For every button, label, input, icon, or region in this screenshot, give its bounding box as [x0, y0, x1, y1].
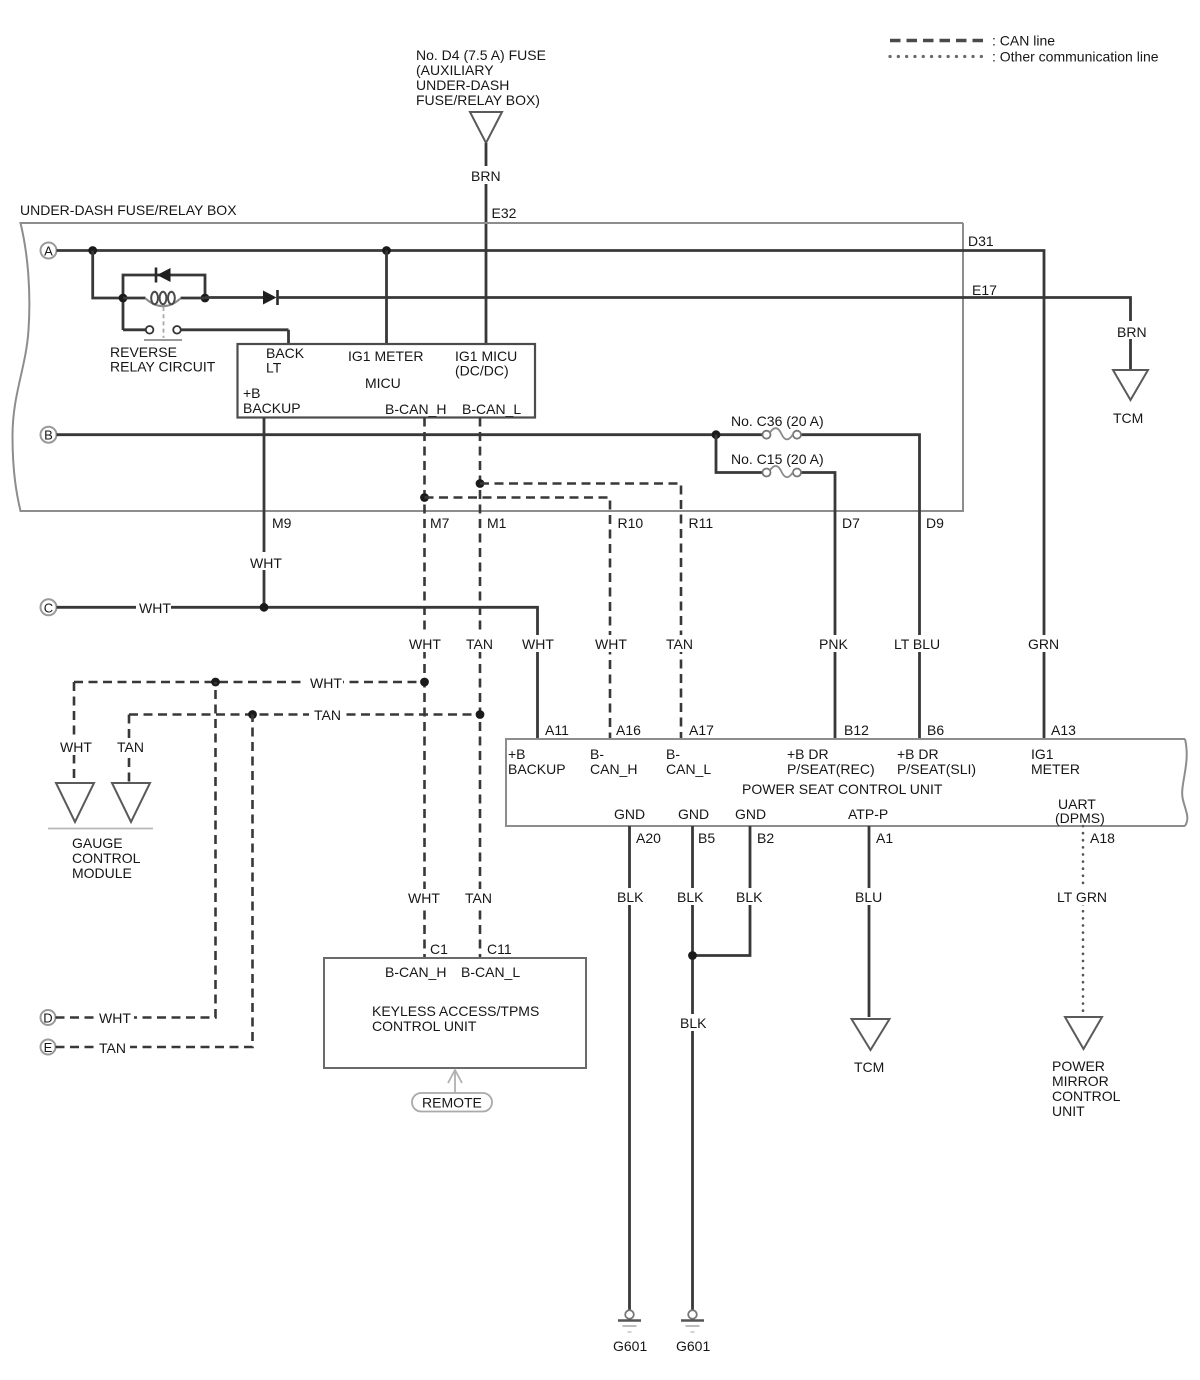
legend CAN line sample	[890, 33, 1055, 49]
node A	[41, 243, 57, 259]
label POWER MIRROR CONTROL UNIT	[1052, 1058, 1121, 1119]
svg-text:TAN: TAN	[466, 636, 493, 652]
other-comm dotted wire A18 LT GRN	[1054, 826, 1108, 1015]
junction WHT dashed at D riser	[211, 678, 220, 687]
svg-text:CAN_H: CAN_H	[590, 761, 637, 777]
svg-text:BLK: BLK	[677, 889, 704, 905]
MICU labels	[243, 345, 521, 417]
junction TAN dashed at E riser	[248, 710, 257, 719]
svg-text:MIRROR: MIRROR	[1052, 1073, 1109, 1089]
gauge module baseline	[48, 828, 153, 830]
svg-text:B12: B12	[844, 722, 869, 738]
wire E17 main horizontal to TCM	[205, 298, 1149, 371]
svg-text:UNIT: UNIT	[1052, 1103, 1085, 1119]
svg-text:+B DR: +B DR	[787, 746, 829, 762]
svg-text:C11: C11	[487, 941, 512, 957]
svg-text:BLK: BLK	[736, 889, 763, 905]
svg-text:WHT: WHT	[99, 1010, 131, 1026]
svg-text:IG1: IG1	[1031, 746, 1054, 762]
node E	[41, 1040, 56, 1056]
svg-text:TAN: TAN	[666, 636, 693, 652]
fuse No. D4 (7.5 A) label	[416, 47, 546, 108]
label GAUGE CONTROL MODULE	[72, 835, 141, 881]
svg-text:FUSE/RELAY BOX): FUSE/RELAY BOX)	[416, 92, 540, 108]
CAN dashed wire E TAN	[56, 715, 253, 1057]
svg-text:CAN_L: CAN_L	[666, 761, 711, 777]
svg-text:GRN: GRN	[1028, 636, 1059, 652]
svg-text:C: C	[44, 600, 53, 615]
label UNDER-DASH FUSE/RELAY BOX	[20, 202, 237, 218]
connector triangle TCM (bottom)	[852, 1019, 890, 1075]
svg-text:A: A	[44, 244, 53, 259]
svg-text:POWER: POWER	[1052, 1058, 1105, 1074]
svg-text:A13: A13	[1051, 722, 1076, 738]
svg-text:POWER SEAT CONTROL UNIT: POWER SEAT CONTROL UNIT	[742, 781, 943, 797]
svg-text:M9: M9	[272, 515, 292, 531]
svg-text:TAN: TAN	[314, 707, 341, 723]
svg-text:M7: M7	[430, 515, 450, 531]
svg-text:TCM: TCM	[1113, 410, 1143, 426]
svg-text:E: E	[44, 1040, 53, 1055]
relay coil leads	[123, 297, 205, 300]
svg-text:G601: G601	[613, 1338, 647, 1354]
CAN dashed WHT drop to gauge module	[56, 682, 93, 783]
svg-text:PNK: PNK	[819, 636, 848, 652]
svg-text:LT GRN: LT GRN	[1057, 889, 1107, 905]
svg-text:B-CAN_L: B-CAN_L	[462, 401, 521, 417]
svg-text:LT BLU: LT BLU	[894, 636, 940, 652]
svg-text:A20: A20	[636, 830, 661, 846]
svg-text:BLK: BLK	[617, 889, 644, 905]
svg-text:No. C36 (20 A): No. C36 (20 A)	[731, 413, 824, 429]
terminal labels under box: M9 M7 M1 R10 R11 D7 D9	[272, 515, 944, 531]
junction TAN dashed at M1	[476, 710, 485, 719]
PSCU top labels	[508, 746, 1080, 777]
svg-text:+B: +B	[508, 746, 526, 762]
PSCU bottom labels	[614, 796, 1105, 826]
PSCU bottom pin labels	[636, 830, 1115, 846]
junction C line with M9 wire	[260, 603, 269, 612]
svg-text:(DPMS): (DPMS)	[1055, 810, 1105, 826]
CAN wire B-CAN_H M7 dashed down to C1	[406, 418, 443, 959]
REMOTE pill	[412, 1093, 492, 1112]
svg-text:KEYLESS ACCESS/TPMS: KEYLESS ACCESS/TPMS	[372, 1003, 539, 1019]
svg-text:: CAN line: : CAN line	[992, 33, 1055, 49]
svg-text:IG1 METER: IG1 METER	[348, 348, 423, 364]
svg-text:B5: B5	[698, 830, 715, 846]
svg-text:A17: A17	[689, 722, 714, 738]
svg-text:No. D4 (7.5 A) FUSE: No. D4 (7.5 A) FUSE	[416, 47, 546, 63]
CAN dashed TAN horizontal to gauge module	[129, 706, 480, 723]
svg-text:P/SEAT(REC): P/SEAT(REC)	[787, 761, 875, 777]
svg-text:TCM: TCM	[854, 1059, 884, 1075]
wire PNK label on D7-B12	[816, 635, 850, 652]
svg-text:BACKUP: BACKUP	[508, 761, 566, 777]
svg-text:E32: E32	[492, 205, 517, 221]
relay switch bar	[144, 339, 182, 341]
svg-text:A18: A18	[1090, 830, 1115, 846]
connector triangle TCM (top right)	[1113, 370, 1148, 426]
svg-text:REMOTE: REMOTE	[422, 1095, 482, 1111]
connector triangle gauge WHT	[56, 783, 94, 822]
svg-text:TAN: TAN	[117, 739, 144, 755]
junction relay left	[119, 294, 128, 303]
wire from A down to relay circuit	[93, 251, 123, 299]
fuse No. C36 (20 A)	[731, 413, 824, 439]
svg-text:BLU: BLU	[855, 889, 882, 905]
svg-text:WHT: WHT	[595, 636, 627, 652]
svg-text:B-CAN_L: B-CAN_L	[461, 964, 520, 980]
svg-text:D31: D31	[968, 233, 994, 249]
svg-text:B-CAN_H: B-CAN_H	[385, 964, 446, 980]
svg-text:WHT: WHT	[250, 555, 282, 571]
node B	[41, 427, 57, 443]
diode D2 on main E17 line (pointing right)	[263, 290, 278, 305]
svg-text:GND: GND	[614, 806, 645, 822]
junction on B-CAN_L dashed	[476, 479, 485, 488]
wire C horizontal to A11	[57, 599, 557, 739]
connector triangle POWER MIRROR	[1065, 1017, 1102, 1049]
svg-text:CONTROL: CONTROL	[72, 850, 141, 866]
svg-text:WHT: WHT	[60, 739, 92, 755]
CAN wire B-CAN_L M1 dashed down to C11	[463, 418, 495, 959]
wire BRN from fuse to E32	[468, 143, 504, 344]
junction B2/B5	[688, 951, 697, 960]
power seat control unit box	[506, 739, 1187, 826]
node D	[41, 1010, 56, 1026]
svg-text:CONTROL UNIT: CONTROL UNIT	[372, 1018, 477, 1034]
svg-text:A16: A16	[616, 722, 641, 738]
junction relay right	[201, 294, 210, 303]
label E17	[972, 282, 997, 298]
svg-text:TAN: TAN	[99, 1040, 126, 1056]
svg-text:UNDER-DASH FUSE/RELAY BOX: UNDER-DASH FUSE/RELAY BOX	[20, 202, 237, 218]
wire LT BLU label on D9-B6	[891, 635, 943, 652]
wire IG1 METER pin	[385, 251, 388, 345]
svg-text:LT: LT	[266, 360, 282, 376]
svg-text:WHT: WHT	[139, 600, 171, 616]
junction on wire A at IG1 METER	[382, 246, 391, 255]
keyless access/TPMS control unit box	[324, 958, 586, 1068]
relay armature dashed link	[163, 307, 165, 338]
connector triangle from No. D4 fuse	[470, 112, 502, 143]
svg-text:GND: GND	[735, 806, 766, 822]
svg-text:WHT: WHT	[409, 636, 441, 652]
CAN dashed TAN drop to gauge module	[112, 715, 145, 784]
remote antenna arrow	[448, 1070, 462, 1093]
relay switch contact	[123, 326, 289, 334]
svg-text:A11: A11	[545, 722, 569, 738]
svg-text:WHT: WHT	[310, 675, 342, 691]
svg-text:(DC/DC): (DC/DC)	[455, 363, 509, 379]
label REVERSE RELAY CIRCUIT	[110, 344, 216, 375]
reverse relay circuit left branch wire	[123, 275, 205, 330]
connector triangle gauge TAN	[112, 783, 150, 822]
svg-text:METER: METER	[1031, 761, 1080, 777]
node C	[41, 599, 57, 615]
PSCU top pin labels	[545, 722, 1076, 738]
CAN dashed branch to R10/A16	[425, 498, 631, 740]
wire +B BACKUP M9 down to node C line	[247, 418, 282, 608]
junction on B-CAN_H dashed	[420, 493, 429, 502]
wire BLK B5	[674, 826, 708, 1310]
junction WHT dashed at M7	[420, 678, 429, 687]
wire BLU A1 to TCM	[852, 826, 885, 1017]
wire BACK LT pin	[287, 330, 290, 344]
MICU box	[238, 344, 536, 418]
svg-text:TAN: TAN	[465, 890, 492, 906]
svg-text:BRN: BRN	[1117, 324, 1147, 340]
wire B horizontal	[57, 435, 920, 739]
CAN dashed WHT horizontal to gauge module	[74, 674, 425, 691]
svg-text:MODULE: MODULE	[72, 865, 132, 881]
under-dash fuse/relay box	[13, 223, 964, 511]
svg-text:B: B	[44, 428, 53, 443]
svg-text:BACKUP: BACKUP	[243, 400, 301, 416]
svg-text:A1: A1	[876, 830, 893, 846]
wire A horizontal to D31 corner, down to A13 GRN	[57, 251, 1061, 740]
svg-text:BLK: BLK	[680, 1015, 707, 1031]
svg-text:P/SEAT(SLI): P/SEAT(SLI)	[897, 761, 976, 777]
PSCU title	[742, 781, 943, 797]
ground G601 right	[676, 1310, 710, 1354]
svg-text:B2: B2	[757, 830, 774, 846]
svg-text:B6: B6	[927, 722, 944, 738]
svg-text:+B: +B	[243, 385, 261, 401]
svg-text:G601: G601	[676, 1338, 710, 1354]
legend Other communication line sample	[890, 49, 1159, 65]
svg-text:: Other communication line: : Other communication line	[992, 49, 1159, 65]
svg-text:BRN: BRN	[471, 168, 501, 184]
svg-text:WHT: WHT	[522, 636, 554, 652]
diode D1 on relay top branch (pointing left)	[156, 268, 171, 283]
CAN dashed wire D WHT	[56, 682, 216, 1026]
svg-text:B-CAN_H: B-CAN_H	[385, 401, 446, 417]
svg-text:WHT: WHT	[408, 890, 440, 906]
keyless box pin labels C1 C11	[430, 941, 512, 957]
wire BLK A20 to G601	[613, 826, 647, 1310]
svg-text:CONTROL: CONTROL	[1052, 1088, 1121, 1104]
svg-text:E17: E17	[972, 282, 997, 298]
svg-text:ATP-P: ATP-P	[848, 806, 888, 822]
svg-text:B-: B-	[590, 746, 604, 762]
junction on wire B	[712, 430, 721, 439]
relay coil	[146, 292, 181, 306]
svg-text:GAUGE: GAUGE	[72, 835, 123, 851]
svg-text:No. C15 (20 A): No. C15 (20 A)	[731, 451, 824, 467]
label D31	[968, 233, 994, 249]
wire BLK B2 joining B5	[693, 826, 768, 956]
junction on wire A at x=92.7	[88, 246, 97, 255]
ground G601 left	[613, 1310, 647, 1354]
keyless box labels	[372, 964, 539, 1034]
svg-text:D7: D7	[842, 515, 860, 531]
svg-text:R10: R10	[618, 515, 644, 531]
label E32	[492, 205, 517, 221]
svg-text:(AUXILIARY: (AUXILIARY	[416, 62, 494, 78]
svg-text:R11: R11	[689, 515, 714, 531]
svg-text:D: D	[43, 1011, 52, 1026]
wire from junction to fuse C15 and D7	[716, 435, 835, 739]
fuse No. C15 (20 A)	[731, 451, 824, 477]
svg-text:GND: GND	[678, 806, 709, 822]
svg-text:M1: M1	[487, 515, 507, 531]
svg-text:D9: D9	[926, 515, 944, 531]
CAN dashed branch to R11/A17	[480, 484, 696, 740]
svg-text:B-: B-	[666, 746, 680, 762]
svg-text:C1: C1	[430, 941, 448, 957]
svg-text:+B DR: +B DR	[897, 746, 939, 762]
svg-text:MICU: MICU	[365, 375, 401, 391]
svg-text:RELAY CIRCUIT: RELAY CIRCUIT	[110, 359, 216, 375]
svg-text:UNDER-DASH: UNDER-DASH	[416, 77, 509, 93]
